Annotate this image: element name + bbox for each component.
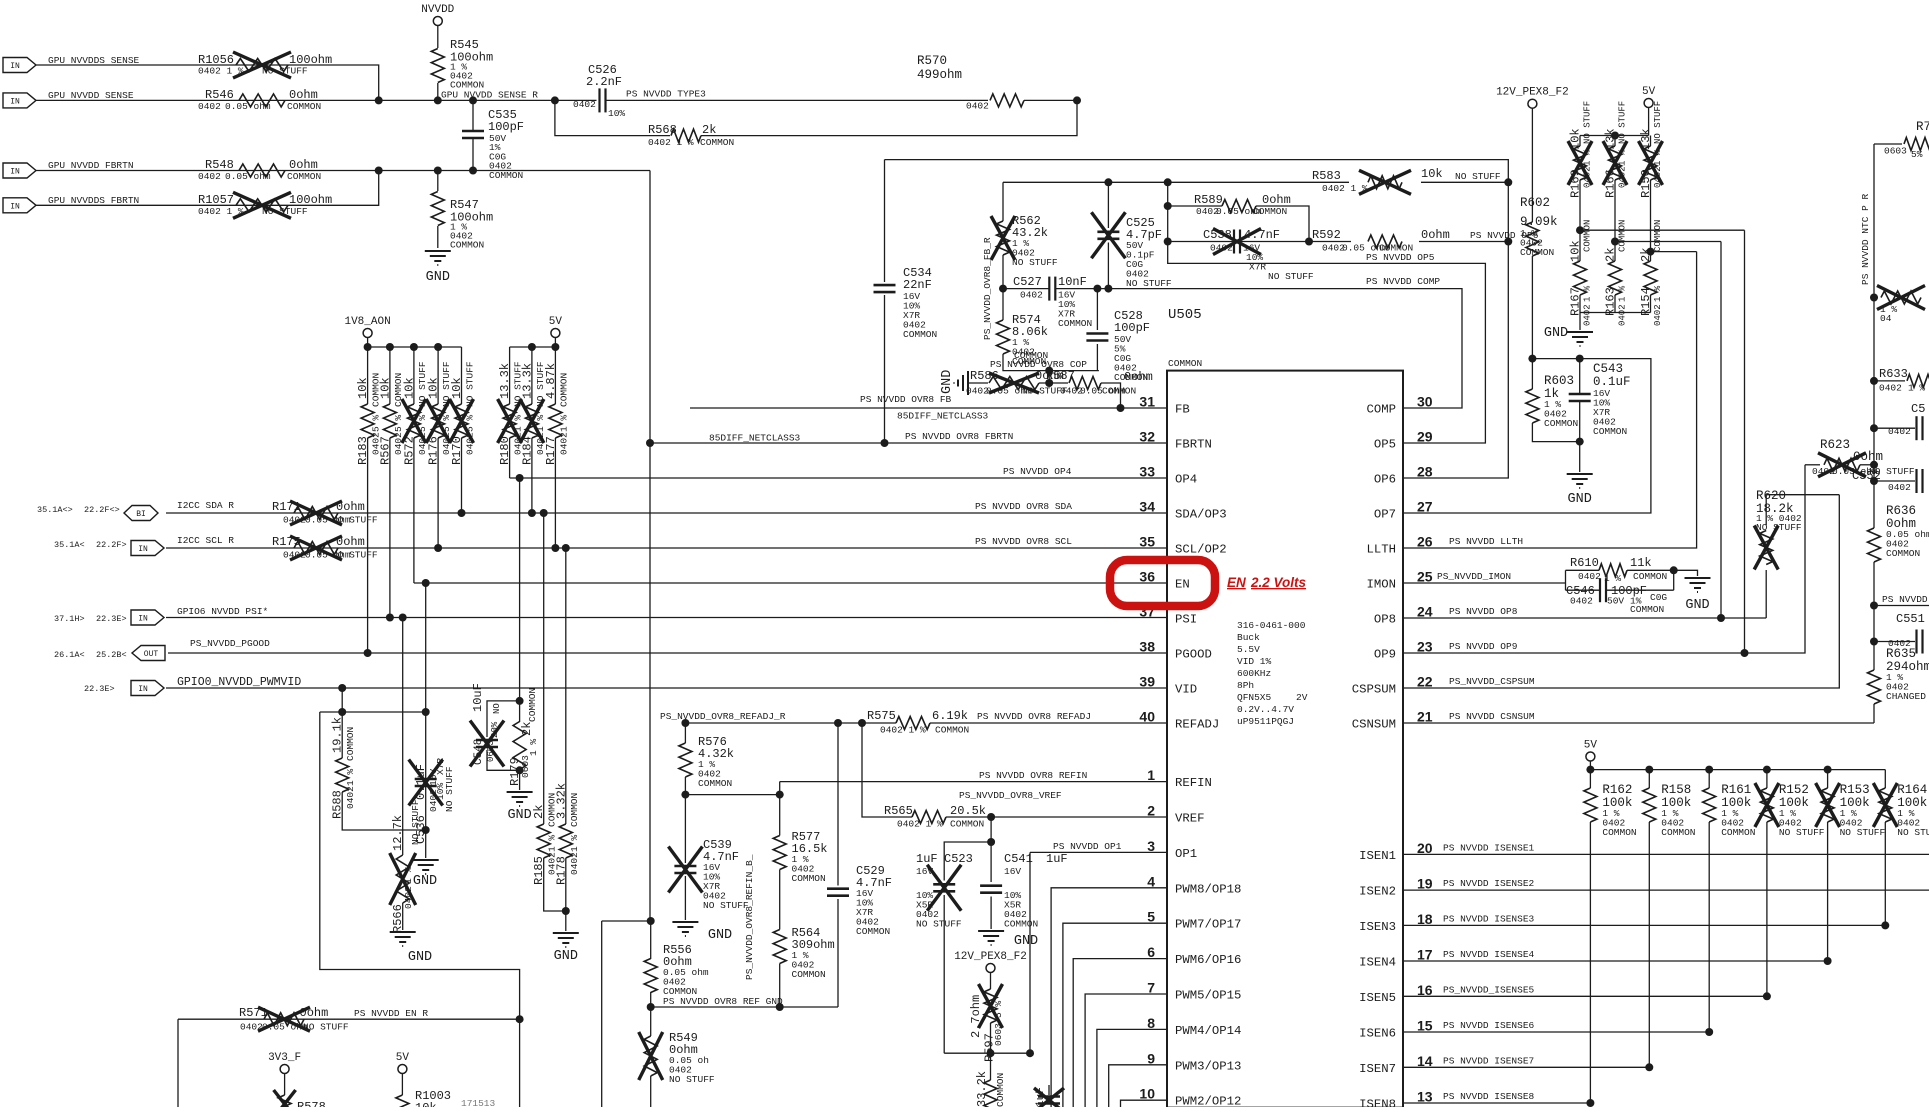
wire R556 top row <box>602 920 651 922</box>
wire R150 mid tap <box>1650 180 1652 252</box>
svg-text:GPU NVVDD FBRTN: GPU NVVDD FBRTN <box>48 160 134 171</box>
svg-text:100pF: 100pF <box>1114 321 1150 335</box>
svg-text:1: 1 <box>1147 767 1155 783</box>
capacitor 10uF (cut) <box>1048 1085 1050 1095</box>
wire row1 <box>36 65 379 100</box>
junction row1-row2 <box>375 96 383 104</box>
wire PGOOD row <box>168 652 1167 654</box>
power 5V bottom-left <box>398 1065 407 1074</box>
svg-text:22.3E>: 22.3E> <box>96 614 127 624</box>
svg-text:NO STUFF: NO STUFF <box>1756 522 1802 533</box>
resistor R568 2k <box>671 129 701 142</box>
svg-text:10%: 10% <box>608 108 625 119</box>
svg-text:0402: 0402 <box>569 852 580 875</box>
wire PWM pin10 staircase <box>1121 1100 1168 1107</box>
svg-text:NO STUFF: NO STUFF <box>916 919 962 930</box>
resistor R633 0ohm <box>1870 377 1878 385</box>
svg-text:R185: R185 <box>532 856 546 885</box>
svg-text:34: 34 <box>1139 499 1155 515</box>
power 12V_PEX8_F2 top <box>1528 99 1537 108</box>
wire PS NVVDD ISENSE8 <box>1403 1102 1590 1104</box>
svg-text:5 %: 5 % <box>993 1001 1004 1018</box>
resistor R169 10k NO STUFF <box>1579 136 1581 147</box>
svg-text:NO STUFF: NO STUFF <box>703 900 749 911</box>
svg-text:COMMON: COMMON <box>1653 220 1663 252</box>
wire R169 mid tap <box>1579 180 1581 230</box>
svg-text:12.7k: 12.7k <box>391 815 405 851</box>
capacitor 1uF NO STUFF (C523) <box>933 883 955 886</box>
svg-text:0.1uF: 0.1uF <box>414 764 428 800</box>
svg-text:PS NVVDD NTC P R: PS NVVDD NTC P R <box>1860 193 1871 285</box>
svg-text:0402: 0402 <box>1570 596 1593 607</box>
svg-text:R575: R575 <box>867 709 896 723</box>
svg-text:3: 3 <box>1147 838 1155 854</box>
svg-text:PS NVVDD CSNSUM: PS NVVDD CSNSUM <box>1449 711 1535 722</box>
resistor R7xx 0603 top right (cut) <box>1874 143 1902 145</box>
resistor R152 100k NO STUFF <box>1766 770 1768 788</box>
svg-text:NVVDD: NVVDD <box>421 4 454 16</box>
resistor R562 43.2k NO STUFF <box>1002 182 1004 221</box>
ground dividers <box>1567 331 1593 333</box>
svg-text:PS NVVDD OVR8 FBRTN: PS NVVDD OVR8 FBRTN <box>905 431 1013 442</box>
resistor R523 33.2k (cut) <box>990 1053 992 1080</box>
svg-text:IN: IN <box>10 168 20 177</box>
svg-text:35.1A<>: 35.1A<> <box>37 505 73 515</box>
svg-text:PS NVVDD ISENSE3: PS NVVDD ISENSE3 <box>1443 913 1535 924</box>
ground below R566 <box>390 931 416 933</box>
resistor R170 10k NO STUFF <box>461 347 463 404</box>
flag IN GPU_NVVDDS_FBRTN <box>3 198 36 213</box>
svg-text:NO STUFF: NO STUFF <box>1126 278 1172 289</box>
svg-text:1 %: 1 % <box>1618 285 1628 302</box>
svg-text:17: 17 <box>1417 947 1433 963</box>
resistor R180 13.3k NO STUFF <box>509 347 511 404</box>
resistor R154 2k <box>1644 261 1657 295</box>
wire EN node sub-line <box>341 688 343 712</box>
svg-text:37.1H>: 37.1H> <box>54 614 85 624</box>
wire OP1 row <box>1030 851 1167 853</box>
wire C548/R179 column <box>519 478 521 722</box>
svg-text:GND: GND <box>554 949 578 964</box>
svg-text:22.3E>: 22.3E> <box>84 684 115 694</box>
svg-text:04: 04 <box>1880 313 1892 324</box>
capacitor C543 0.1uF <box>1579 359 1581 394</box>
svg-text:2.7ohm: 2.7ohm <box>969 995 983 1038</box>
svg-text:NO STUFF: NO STUFF <box>1779 827 1825 838</box>
svg-text:PS NVVDD ISENSE1: PS NVVDD ISENSE1 <box>1443 842 1535 853</box>
svg-text:OP4: OP4 <box>1175 473 1197 487</box>
resistor R175 0ohm NO STUFF <box>294 542 338 555</box>
svg-text:PWM8/OP18: PWM8/OP18 <box>1175 882 1241 896</box>
resistor R636 0ohm in bus <box>1868 528 1881 562</box>
svg-text:PS NVVDD ISENSE6: PS NVVDD ISENSE6 <box>1443 1020 1535 1031</box>
junction R576 bottom <box>681 791 689 799</box>
wire TYPE3 <box>606 99 989 101</box>
svg-text:R583: R583 <box>1312 169 1341 183</box>
bus ISEN 5V <box>1590 769 1885 771</box>
svg-text:0402: 0402 <box>1888 426 1911 437</box>
svg-text:NO STUFF: NO STUFF <box>1455 171 1501 182</box>
resistor R564 309ohm <box>773 930 786 964</box>
power NVVDD <box>433 17 442 26</box>
svg-text:10: 10 <box>1139 1086 1155 1102</box>
capacitor C551 (cut) <box>1870 638 1878 646</box>
svg-text:2: 2 <box>1147 803 1155 819</box>
capacitor C552 (cut) <box>1870 477 1878 485</box>
svg-text:0ohm: 0ohm <box>1421 228 1450 242</box>
svg-text:0402: 0402 <box>1653 166 1663 188</box>
wire OP8 row <box>1403 617 1766 619</box>
svg-text:0ohm: 0ohm <box>289 158 318 172</box>
resistor R556 0ohm <box>650 921 652 959</box>
svg-text:5%: 5% <box>1911 149 1923 160</box>
resistor R177 4.87k <box>554 347 556 404</box>
svg-text:COMMON: COMMON <box>698 778 732 789</box>
svg-text:GPIO6 NVVDD PSI*: GPIO6 NVVDD PSI* <box>177 606 268 617</box>
svg-text:25.2B<: 25.2B< <box>96 650 127 660</box>
svg-text:IN: IN <box>138 615 148 624</box>
junction R586/R587 row <box>1045 379 1053 387</box>
svg-text:ISEN1: ISEN1 <box>1359 849 1396 863</box>
svg-text:10nF: 10nF <box>1058 275 1087 289</box>
resistor R635 294ohm in bus <box>1868 670 1881 704</box>
svg-text:24: 24 <box>1417 604 1433 620</box>
svg-text:20.5k: 20.5k <box>950 804 986 818</box>
svg-text:COMMON: COMMON <box>1014 350 1048 361</box>
svg-text:GPU NVVDD SENSE R: GPU NVVDD SENSE R <box>441 90 538 101</box>
svg-text:IN: IN <box>138 685 148 694</box>
bus 5V bank2 <box>510 346 556 348</box>
svg-text:SCL/OP2: SCL/OP2 <box>1175 543 1227 557</box>
wire VREF row <box>862 723 912 817</box>
resistor R623 0ohm NO STUFF <box>1805 464 1820 466</box>
junction C525 bottom <box>1104 285 1112 293</box>
svg-text:COMMON: COMMON <box>1102 386 1136 397</box>
svg-text:23: 23 <box>1417 639 1433 655</box>
junction COP row <box>1045 367 1053 375</box>
resistor R1003 10k (cut) <box>396 1095 409 1112</box>
junction R583 row dots <box>1104 178 1112 186</box>
svg-text:2k: 2k <box>520 722 534 736</box>
svg-text:REFIN: REFIN <box>1175 776 1212 790</box>
resistor R178 3.32k <box>565 548 567 824</box>
capacitor C535 100pF <box>472 100 474 131</box>
svg-text:1 %: 1 % <box>1583 149 1593 166</box>
ground below R178 <box>553 932 579 934</box>
svg-text:COMMON: COMMON <box>903 329 937 340</box>
svg-text:COMMON: COMMON <box>792 969 826 980</box>
svg-text:ISEN4: ISEN4 <box>1359 956 1396 970</box>
wire REFIN row <box>780 781 1167 783</box>
capacitor C529 4.7nF <box>837 723 839 886</box>
svg-text:85DIFF_NETCLASS3: 85DIFF_NETCLASS3 <box>709 433 801 444</box>
svg-text:20%: 20% <box>490 721 500 738</box>
resistor R1056 100ohm NO STUFF <box>236 59 288 72</box>
svg-text:5V: 5V <box>396 1052 410 1064</box>
power 5V ISEN bank <box>1586 752 1595 761</box>
svg-text:R602: R602 <box>1520 196 1550 210</box>
svg-text:PS_NVVDD_ISENSE5: PS_NVVDD_ISENSE5 <box>1443 984 1535 995</box>
svg-text:PWM5/OP15: PWM5/OP15 <box>1175 989 1241 1003</box>
svg-text:100pF: 100pF <box>488 120 524 134</box>
svg-text:GND: GND <box>1685 598 1709 613</box>
capacitor C538 4.7nF NO STUFF <box>1168 241 1234 243</box>
svg-text:13.3k: 13.3k <box>520 363 534 399</box>
junction FB at R587 <box>1117 404 1125 412</box>
svg-text:EN: EN <box>1227 575 1246 590</box>
svg-text:12V_PEX8_F2: 12V_PEX8_F2 <box>1496 87 1569 99</box>
resistor R589 0ohm <box>1168 205 1222 207</box>
wire R568 to R570 junction <box>701 100 1077 135</box>
svg-text:PS NVVDD OVR8 REFIN: PS NVVDD OVR8 REFIN <box>979 770 1087 781</box>
svg-text:0402: 0402 <box>1618 304 1628 326</box>
svg-text:1uF: 1uF <box>1046 852 1068 866</box>
svg-text:COMMON: COMMON <box>1886 548 1920 559</box>
svg-text:16V: 16V <box>916 866 933 877</box>
svg-text:PS NVVDD OP4: PS NVVDD OP4 <box>1003 466 1072 477</box>
wire R166 tap to OP8 riser <box>1615 241 1721 243</box>
wire R570 right <box>1024 99 1077 101</box>
svg-text:COMMON: COMMON <box>1058 318 1092 329</box>
resistor R587 0ohm <box>1039 382 1068 384</box>
wire PS NVVDD ISENSE2 <box>1403 889 1929 891</box>
svg-text:0402 1 %: 0402 1 % <box>880 725 926 736</box>
wire C541 columns <box>990 817 992 842</box>
svg-text:NO STUFF: NO STUFF <box>1012 257 1058 268</box>
svg-text:10k: 10k <box>1421 167 1443 181</box>
svg-text:NO STUFF: NO STUFF <box>1840 827 1886 838</box>
resistor R586 0ohm NO STUFF <box>968 382 988 384</box>
wire OP9 row <box>1403 465 1805 653</box>
svg-text:SDA/OP3: SDA/OP3 <box>1175 508 1227 522</box>
svg-text:PS NVVDD TYPE3: PS NVVDD TYPE3 <box>626 89 706 100</box>
junction OP6 riser <box>1504 238 1512 246</box>
svg-text:R567: R567 <box>378 436 392 465</box>
resistor R578 (cut) <box>278 1095 291 1112</box>
svg-text:PS NVVDD OVR8 SDA: PS NVVDD OVR8 SDA <box>975 501 1072 512</box>
junction FBRTN x650 <box>646 439 654 447</box>
svg-text:COMMON: COMMON <box>1633 571 1667 582</box>
svg-text:0402: 0402 <box>403 886 414 909</box>
resistor R592 0ohm <box>1309 241 1351 243</box>
svg-text:C552: C552 <box>1852 469 1881 483</box>
svg-text:28: 28 <box>1417 464 1433 480</box>
wire R545 to sense node <box>437 83 439 100</box>
svg-text:4.87k: 4.87k <box>544 363 558 399</box>
svg-text:R162: R162 <box>1602 783 1632 797</box>
svg-text:R152: R152 <box>1779 783 1809 797</box>
svg-text:0402: 0402 <box>1653 304 1663 326</box>
svg-text:IN: IN <box>10 62 20 71</box>
svg-text:R546: R546 <box>205 88 234 102</box>
svg-text:10k: 10k <box>450 377 464 399</box>
resistor R183 10k <box>367 347 369 404</box>
svg-text:ISEN7: ISEN7 <box>1359 1062 1396 1076</box>
wire IMON row <box>1403 582 1566 584</box>
svg-text:29: 29 <box>1417 429 1433 445</box>
wire EN row to pin36 <box>414 582 1167 584</box>
svg-text:0402 1 %: 0402 1 % <box>897 819 943 830</box>
svg-text:5: 5 <box>1147 909 1155 925</box>
ground below C536 <box>413 859 439 861</box>
flag IN GPU_NVVDD_SENSE <box>3 93 36 108</box>
svg-text:IMON: IMON <box>1366 578 1396 592</box>
svg-text:GND: GND <box>940 370 955 394</box>
svg-text:PGOOD: PGOOD <box>1175 648 1212 662</box>
svg-text:1 %: 1 % <box>1653 149 1663 166</box>
svg-text:ISEN6: ISEN6 <box>1359 1027 1396 1041</box>
wire PWM pin6 staircase <box>1073 959 1167 1107</box>
svg-text:NO STUFF: NO STUFF <box>1653 101 1663 144</box>
resistor R576 4.32k <box>684 723 686 743</box>
svg-text:1 %: 1 % <box>558 415 569 432</box>
svg-text:COMMON: COMMON <box>1618 220 1628 252</box>
wire OP5 row <box>1168 242 1486 444</box>
svg-text:0ohm: 0ohm <box>1124 370 1153 384</box>
svg-text:0402: 0402 <box>1879 383 1902 394</box>
capacitor C536 0.1uF NO STUFF <box>425 583 427 779</box>
svg-text:COMP: COMP <box>1366 403 1396 417</box>
svg-text:38: 38 <box>1139 639 1155 655</box>
resistor R597 2.7ohm NO STUFF <box>990 973 992 990</box>
wire R166 mid tap <box>1614 180 1616 242</box>
svg-text:27: 27 <box>1417 499 1433 515</box>
svg-text:PWM6/OP16: PWM6/OP16 <box>1175 953 1241 967</box>
svg-text:3.32k: 3.32k <box>554 783 568 819</box>
junction R545 <box>434 96 442 104</box>
svg-text:IN: IN <box>10 97 20 106</box>
wire CSPSUM row <box>1403 495 1839 688</box>
svg-text:R161: R161 <box>1721 783 1751 797</box>
svg-text:1 %: 1 % <box>528 739 539 756</box>
svg-text:22: 22 <box>1417 674 1433 690</box>
wire PS NVVDD ISENSE3 <box>1403 924 1885 926</box>
svg-text:10k: 10k <box>378 377 392 399</box>
svg-text:NO STUFF: NO STUFF <box>1618 101 1628 144</box>
power 5V bank2 <box>551 329 560 338</box>
resistor R171 0ohm NO STUFF <box>294 507 338 520</box>
wire REFADJ row <box>685 722 896 724</box>
svg-text:R164: R164 <box>1897 783 1927 797</box>
wire PWMVID row <box>166 687 1167 689</box>
svg-text:IN: IN <box>10 202 20 211</box>
svg-text:10k: 10k <box>427 377 441 399</box>
svg-text:5.5V: 5.5V <box>1237 644 1260 655</box>
resistor R549 0ohm NO STUFF <box>650 1007 652 1036</box>
svg-text:QFN5X5: QFN5X5 <box>1237 692 1272 703</box>
ground below R179 <box>507 791 533 793</box>
svg-text:PS NVVDD OVR8 FB: PS NVVDD OVR8 FB <box>860 394 952 405</box>
junction EN dot C536 branch <box>422 579 430 587</box>
resistor R583 10k NO STUFF <box>1368 176 1402 189</box>
wire SDA row <box>166 512 1167 514</box>
svg-text:171513: 171513 <box>461 1098 496 1107</box>
wire R571 row PS_NVVDD_EN_R <box>178 1018 520 1020</box>
power 12V_PEX8_F2 mid <box>986 964 995 973</box>
svg-text:C551: C551 <box>1896 612 1925 626</box>
svg-text:COMMON: COMMON <box>1168 358 1202 369</box>
svg-text:0ohm: 0ohm <box>289 88 318 102</box>
svg-text:GPU NVVDD SENSE: GPU NVVDD SENSE <box>48 90 134 101</box>
svg-text:REFADJ: REFADJ <box>1175 718 1219 732</box>
svg-text:PS_NVVDD_OVR8_REFIN_B_: PS_NVVDD_OVR8_REFIN_B_ <box>744 854 755 980</box>
svg-text:PSI: PSI <box>1175 613 1197 627</box>
resistor R161 100k <box>1708 770 1710 788</box>
wire R583 row <box>1003 181 1349 183</box>
svg-text:PWM4/OP14: PWM4/OP14 <box>1175 1024 1241 1038</box>
svg-text:31: 31 <box>1139 394 1155 410</box>
svg-text:4.7nF: 4.7nF <box>1244 228 1280 242</box>
svg-text:COMMON: COMMON <box>1544 418 1578 429</box>
svg-text:uP9511PQGJ: uP9511PQGJ <box>1237 716 1294 727</box>
wire PS NVVDD ISENSE7 <box>1403 1066 1649 1068</box>
svg-text:PS NVVDD COMP: PS NVVDD COMP <box>1366 276 1440 287</box>
svg-text:OP8: OP8 <box>1374 613 1396 627</box>
svg-text:GND: GND <box>1544 326 1568 341</box>
svg-text:COMMON: COMMON <box>1721 827 1755 838</box>
capacitor C550 (cut) <box>1870 424 1878 432</box>
capacitor C548 10uF NO STUFF <box>516 697 524 705</box>
svg-text:0402: 0402 <box>1210 243 1233 254</box>
svg-text:CSNSUM: CSNSUM <box>1352 718 1396 732</box>
svg-text:PS_NVVDD_PGOOD: PS_NVVDD_PGOOD <box>190 638 270 649</box>
svg-text:5 %: 5 % <box>371 415 382 432</box>
svg-text:PS NVVDD OVR8 REFADJ: PS NVVDD OVR8 REFADJ <box>977 711 1091 722</box>
svg-text:50V: 50V <box>1607 596 1624 607</box>
svg-text:8Ph: 8Ph <box>1237 680 1254 691</box>
capacitor C528 100pF <box>1096 289 1098 330</box>
junction R602 bottom <box>1528 355 1536 363</box>
svg-text:GND: GND <box>426 270 450 285</box>
junction VREF dot <box>987 813 995 821</box>
svg-text:R592: R592 <box>1312 228 1341 242</box>
svg-text:NO STUFF: NO STUFF <box>1583 101 1593 144</box>
svg-text:16V: 16V <box>1004 866 1021 877</box>
svg-text:1V8_AON: 1V8_AON <box>344 316 390 328</box>
svg-text:COMMON: COMMON <box>792 873 826 884</box>
svg-text:COMMON: COMMON <box>1602 827 1636 838</box>
resistor R179 2k <box>513 722 526 770</box>
svg-text:33.2k: 33.2k <box>975 1071 989 1107</box>
svg-text:COMMON: COMMON <box>1630 604 1664 615</box>
svg-text:R177: R177 <box>544 436 558 465</box>
wire C534 column <box>884 160 886 282</box>
svg-text:VID: VID <box>1175 683 1197 697</box>
svg-text:0402: 0402 <box>1583 166 1593 188</box>
svg-text:NO STUFF: NO STUFF <box>1268 271 1314 282</box>
power 3V3_F <box>280 1065 289 1074</box>
wire OP7 top row <box>1403 359 1651 513</box>
resistor R571 0ohm NO STUFF <box>264 1013 304 1026</box>
wire CSNSUM row <box>1403 722 1874 724</box>
svg-text:PS NVVDD LLTH: PS NVVDD LLTH <box>1449 536 1523 547</box>
junction C528 top <box>1093 285 1101 293</box>
svg-text:2k: 2k <box>1604 248 1618 262</box>
svg-text:PS_NVVDD_CSPSUM: PS_NVVDD_CSPSUM <box>1449 676 1535 687</box>
svg-text:R171: R171 <box>272 500 301 514</box>
svg-text:GND: GND <box>1568 492 1592 507</box>
junction C543 bottom <box>1576 438 1584 446</box>
ground below C543 <box>1567 473 1593 475</box>
svg-text:PS NVVDD OVR8 REF GND: PS NVVDD OVR8 REF GND <box>663 996 783 1007</box>
svg-text:0402: 0402 <box>1020 290 1043 301</box>
svg-text:VID 1%: VID 1% <box>1237 656 1272 667</box>
svg-text:OUT: OUT <box>144 650 159 659</box>
wire GPIO6 row <box>166 617 1167 619</box>
svg-text:GPU NVVDDS FBRTN: GPU NVVDDS FBRTN <box>48 195 139 206</box>
junction OP4 dot <box>516 474 524 482</box>
svg-text:C5: C5 <box>1911 402 1925 416</box>
